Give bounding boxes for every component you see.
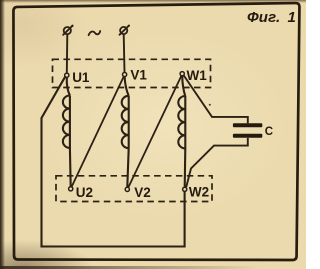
supply terminal right (circle with slash) — [120, 25, 130, 35]
svg-text:Фиг. 1: Фиг. 1 — [247, 9, 296, 26]
svg-text:V1: V1 — [130, 68, 147, 83]
winding V (coil V1-V2) — [122, 77, 129, 188]
winding W (coil W1-W2) — [178, 76, 185, 187]
svg-text:C: C — [265, 126, 273, 138]
terminal board lower (dashed box) — [56, 176, 212, 202]
wire: right terminal to V1 — [123, 34, 126, 72]
supply terminal left (circle with slash) — [63, 25, 73, 35]
wire: left terminal to U1 — [66, 34, 69, 73]
wire: jumper U2 to V1 (diagonal) — [72, 76, 124, 186]
AC symbol ~ — [89, 31, 101, 35]
node W2 — [183, 184, 210, 199]
wire: jumper V2 to W1 (diagonal) — [128, 76, 181, 188]
svg-text:V2: V2 — [134, 185, 151, 200]
node V2 — [125, 185, 151, 200]
wire: U1 to W2 (left loop around bottom) — [42, 77, 185, 247]
node W1 — [180, 68, 207, 83]
svg-text:W1: W1 — [187, 68, 208, 83]
node V1 — [123, 68, 148, 83]
node U1 — [65, 70, 90, 85]
svg-text:W2: W2 — [189, 184, 209, 199]
figure label Фиг. 1 — [247, 9, 296, 26]
svg-text:U1: U1 — [72, 70, 90, 85]
node U2 — [69, 185, 93, 200]
wire: W2 to capacitor bottom — [186, 138, 248, 187]
small ink dot on W1-capacitor wire — [209, 104, 211, 106]
terminal board upper (dashed box) — [53, 59, 211, 87]
capacitor C plates — [233, 123, 262, 137]
winding U (coil U1-U2) — [63, 77, 71, 186]
wire: W1 to capacitor top — [184, 76, 248, 124]
svg-text:U2: U2 — [76, 185, 93, 200]
